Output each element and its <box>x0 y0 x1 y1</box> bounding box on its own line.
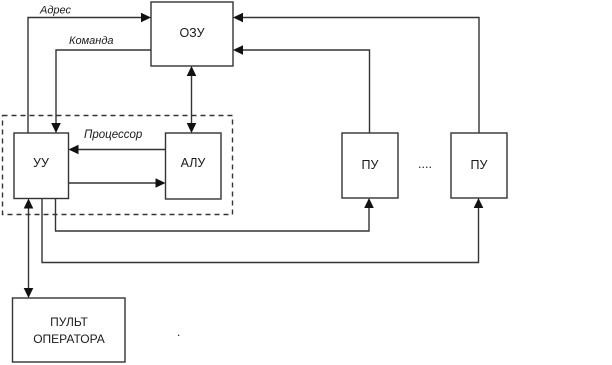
svg-text:ОПЕРАТОРА: ОПЕРАТОРА <box>33 332 105 346</box>
arrowhead into УУ bottom <box>24 199 34 209</box>
svg-text:ОЗУ: ОЗУ <box>179 26 204 40</box>
arrowhead into ОЗУ left (Адрес) <box>141 13 151 23</box>
wire УУ to ПУЛЬТ double arrow <box>28 205 30 291</box>
arrowhead into АЛУ top <box>187 123 197 133</box>
wire Адрес: УУ top to ОЗУ left <box>28 18 143 134</box>
wire Команда: ОЗУ left to УУ top <box>56 50 151 125</box>
arrowhead into УУ top (Команда) <box>51 123 61 133</box>
wire АЛУ to УУ <box>76 149 166 151</box>
svg-text:Команда: Команда <box>69 35 114 47</box>
block ПУ2 <box>451 133 507 198</box>
block АЛУ <box>166 133 222 199</box>
block ПУЛЬТ ОПЕРАТОРА <box>13 298 126 362</box>
svg-text:АЛУ: АЛУ <box>181 156 206 170</box>
block ПУ1 <box>342 133 398 198</box>
wire УУ bottom to ПУ2 bottom <box>42 199 479 263</box>
arrowhead into АЛУ left <box>156 178 166 188</box>
arrowhead into ПУ1 bottom <box>364 198 374 208</box>
wire ПУ2 top to ОЗУ right <box>241 18 479 134</box>
block УУ <box>14 133 69 199</box>
arrowhead into ОЗУ right (top) <box>233 13 243 23</box>
block ОЗУ <box>151 2 233 66</box>
arrowhead into ПУЛЬТ top <box>24 288 34 298</box>
wire ОЗУ to АЛУ double arrow <box>191 73 193 126</box>
svg-text:ПУ: ПУ <box>362 158 379 172</box>
wire УУ bottom to ПУ1 bottom <box>56 199 370 232</box>
svg-text:ПУ: ПУ <box>471 158 488 172</box>
arrowhead into УУ right <box>69 145 79 155</box>
svg-text:УУ: УУ <box>33 156 49 170</box>
svg-text:....: .... <box>418 157 432 171</box>
arrowhead into ОЗУ right (bottom) <box>233 45 243 55</box>
wire ПУ1 top to ОЗУ right <box>241 50 370 133</box>
arrowhead into ПУ2 bottom <box>474 198 484 208</box>
wire УУ to АЛУ <box>69 182 159 184</box>
dashed processor boundary <box>3 116 233 215</box>
svg-text:.: . <box>177 325 180 339</box>
arrowhead into ОЗУ bottom <box>187 66 197 76</box>
svg-text:Процессор: Процессор <box>84 129 143 141</box>
svg-text:Адрес: Адрес <box>39 5 72 17</box>
svg-text:ПУЛЬТ: ПУЛЬТ <box>50 315 88 329</box>
